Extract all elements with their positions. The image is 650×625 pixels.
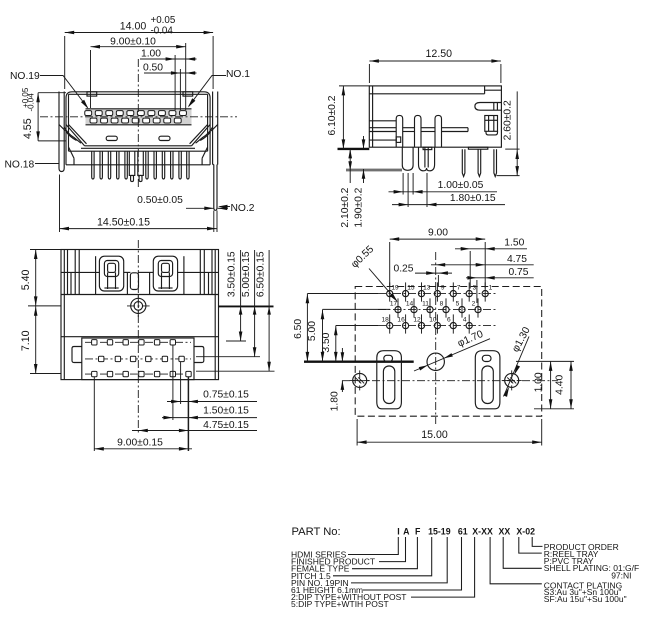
svg-text:61: 61 (458, 527, 468, 537)
svg-text:1.00±0.05: 1.00±0.05 (438, 180, 484, 191)
svg-text:2.60±0.2: 2.60±0.2 (503, 100, 514, 140)
svg-text:NO.19: NO.19 (10, 71, 40, 82)
svg-text:SF:Au 15u"+Su 100u": SF:Au 15u"+Su 100u" (544, 594, 627, 604)
svg-text:5.00±0.15: 5.00±0.15 (241, 251, 252, 297)
svg-text:1.80: 1.80 (329, 391, 340, 411)
svg-text:11: 11 (422, 300, 429, 307)
svg-text:0.25: 0.25 (393, 263, 413, 274)
svg-text:3: 3 (473, 284, 477, 291)
svg-text:9.00: 9.00 (428, 227, 448, 238)
svg-text:6.10±0.2: 6.10±0.2 (327, 95, 338, 135)
svg-text:7.10: 7.10 (20, 330, 32, 351)
svg-text:NO.1: NO.1 (226, 69, 250, 80)
svg-text:13: 13 (423, 284, 431, 291)
svg-text:4: 4 (463, 316, 467, 323)
svg-text:10: 10 (429, 316, 437, 323)
svg-text:NO.18: NO.18 (5, 160, 35, 171)
svg-text:6: 6 (447, 316, 451, 323)
svg-text:X-XX: X-XX (472, 527, 493, 537)
svg-text:19: 19 (391, 284, 399, 291)
svg-text:4.55: 4.55 (22, 118, 34, 139)
svg-text:PART No:: PART No: (292, 526, 341, 538)
svg-text:14.00: 14.00 (120, 21, 147, 33)
svg-text:5.40: 5.40 (20, 269, 32, 290)
svg-text:4.40: 4.40 (555, 375, 566, 395)
svg-text:9: 9 (441, 284, 445, 291)
svg-text:15-19: 15-19 (428, 527, 451, 537)
svg-text:-0.04: -0.04 (27, 93, 36, 112)
svg-text:2.10±0.2: 2.10±0.2 (340, 187, 351, 227)
svg-text:1: 1 (489, 284, 493, 291)
svg-text:5.00: 5.00 (307, 321, 318, 341)
svg-text:X-02: X-02 (516, 527, 535, 537)
svg-text:4.75±0.15: 4.75±0.15 (203, 420, 249, 431)
svg-text:7: 7 (457, 284, 461, 291)
svg-text:1.00: 1.00 (533, 372, 544, 392)
svg-text:3.50: 3.50 (321, 332, 332, 352)
svg-text:-0.04: -0.04 (151, 25, 174, 36)
svg-text:0.50: 0.50 (143, 63, 163, 74)
svg-text:6.50: 6.50 (293, 319, 304, 339)
svg-text:16: 16 (397, 316, 405, 323)
svg-text:1.50±0.15: 1.50±0.15 (203, 406, 249, 417)
svg-text:0.75±0.15: 0.75±0.15 (203, 389, 249, 400)
svg-text:2: 2 (472, 300, 476, 307)
svg-text:17: 17 (390, 300, 398, 307)
svg-text:NO.2: NO.2 (231, 203, 255, 214)
svg-text:5: 5 (456, 300, 460, 307)
svg-text:18: 18 (382, 316, 390, 323)
svg-text:XX: XX (499, 527, 511, 537)
svg-text:3.50±0.15: 3.50±0.15 (227, 251, 238, 297)
svg-text:0.75: 0.75 (508, 267, 528, 278)
svg-text:15: 15 (407, 284, 415, 291)
svg-text:1.80±0.15: 1.80±0.15 (450, 193, 496, 204)
svg-text:6.50±0.15: 6.50±0.15 (256, 251, 267, 297)
svg-text:12.50: 12.50 (426, 48, 453, 60)
svg-text:1.50: 1.50 (504, 237, 524, 248)
svg-text:97:NI: 97:NI (611, 570, 631, 580)
svg-text:15.00: 15.00 (421, 429, 448, 441)
svg-text:14: 14 (406, 300, 414, 307)
svg-text:F: F (415, 527, 421, 537)
svg-text:1.00: 1.00 (141, 48, 161, 59)
svg-text:1.90±0.2: 1.90±0.2 (354, 187, 365, 227)
svg-text:A: A (403, 527, 410, 537)
svg-text:9.00±0.15: 9.00±0.15 (117, 438, 163, 449)
svg-text:I: I (397, 527, 399, 537)
svg-text:4.75: 4.75 (507, 254, 527, 265)
svg-text:12: 12 (413, 316, 421, 323)
svg-text:5:DIP TYPE+WTIH POST: 5:DIP TYPE+WTIH POST (291, 599, 389, 609)
svg-text:8: 8 (440, 300, 444, 307)
svg-text:0.50±0.05: 0.50±0.05 (137, 195, 183, 206)
svg-text:9.00±0.10: 9.00±0.10 (110, 37, 156, 48)
svg-text:14.50±0.15: 14.50±0.15 (97, 217, 150, 229)
